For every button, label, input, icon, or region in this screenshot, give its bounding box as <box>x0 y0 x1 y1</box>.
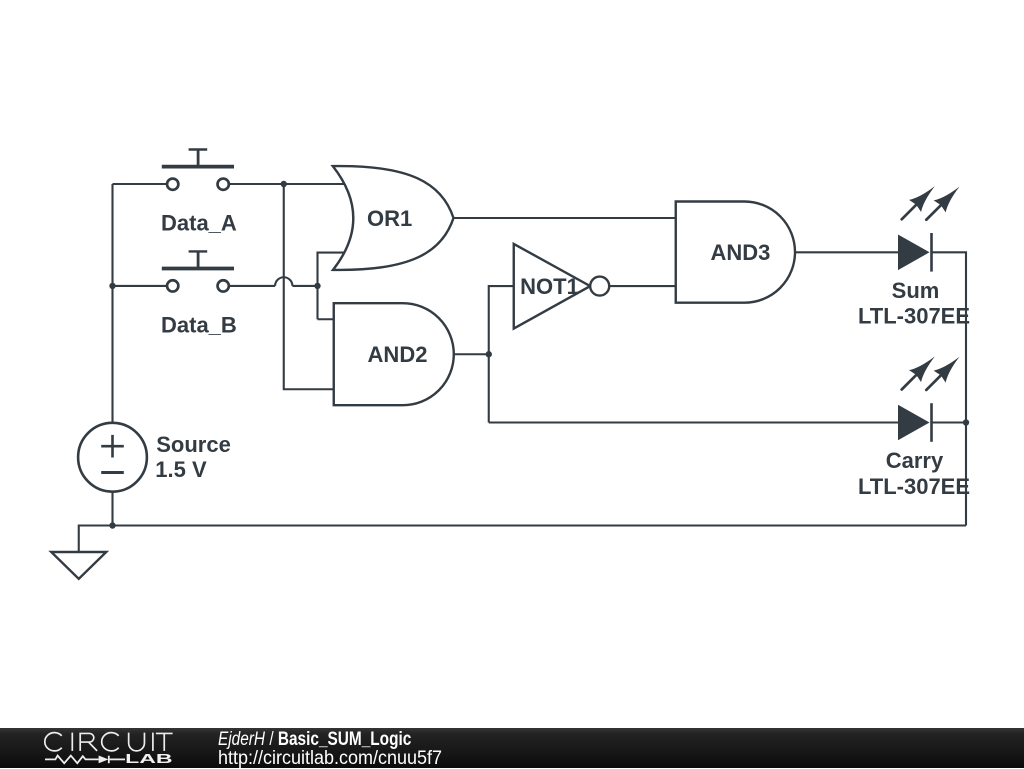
wire: NOT1 output to AND3 lower input <box>609 285 676 287</box>
and-gate AND2 <box>334 303 454 405</box>
svg-text:1.5 V: 1.5 V <box>155 457 207 482</box>
wire: bottom return rail <box>113 524 967 526</box>
node C: AND2 output junction <box>486 351 492 357</box>
wire: Data_A right segment to OR1 input <box>229 183 344 185</box>
node: left rail / Data_B junction <box>109 283 115 289</box>
wire hop over vertical wire <box>275 277 292 286</box>
wire: Sum LED cathode to right rail <box>932 252 967 525</box>
wire: Carry LED cathode to right rail <box>932 421 967 423</box>
wire: node C to Carry LED <box>489 421 898 423</box>
pushbutton Data_A <box>162 150 234 190</box>
wire: ground stub <box>79 526 113 553</box>
svg-text:NOT1: NOT1 <box>520 274 579 299</box>
footer bar <box>0 728 1024 769</box>
svg-text:Sum: Sum <box>892 278 940 303</box>
or-gate OR1 <box>333 166 454 270</box>
voltage source Source <box>78 423 147 492</box>
footer text <box>218 730 411 749</box>
CircuitLab logo <box>0 728 200 768</box>
wire: node C vertical branch <box>489 286 514 422</box>
svg-text:Data_A: Data_A <box>161 211 237 236</box>
svg-text:LTL-307EE: LTL-307EE <box>858 474 970 499</box>
wire: AND2 output to node C <box>454 353 489 355</box>
pushbutton Data_B <box>162 251 234 291</box>
svg-text:LAB: LAB <box>125 751 172 766</box>
svg-text:Data_B: Data_B <box>161 313 237 338</box>
wire: Data_A left segment <box>113 183 168 185</box>
wire: AND3 output to Sum LED <box>795 251 898 253</box>
svg-text:OR1: OR1 <box>367 206 412 231</box>
wire: Data_B left segment <box>113 285 168 287</box>
svg-text:LTL-307EE: LTL-307EE <box>858 304 970 329</box>
wire: node B down to AND2 upper input <box>318 318 334 320</box>
wire: left rail from Data_A to source top <box>111 184 113 423</box>
node: right rail / Carry junction <box>963 419 969 425</box>
wire: vertical from node A down to AND2 lower input <box>284 184 334 389</box>
wire: OR1 output to AND3 upper input <box>454 217 676 219</box>
wire: node B up to OR1 lower input <box>318 253 351 320</box>
wire: source bottom to ground node <box>111 492 113 526</box>
svg-text:AND3: AND3 <box>710 240 770 265</box>
node: ground / source junction <box>109 522 115 528</box>
and-gate AND3 <box>676 202 795 303</box>
inverter NOT1 <box>514 244 609 329</box>
node A: Data_A / OR1 junction <box>281 181 287 187</box>
wire: Data_B segment after hop to node B <box>292 285 317 287</box>
LED Carry (LTL-307EE) <box>896 350 966 441</box>
LED Sum (LTL-307EE) <box>896 180 966 271</box>
svg-text:AND2: AND2 <box>368 342 428 367</box>
ground <box>51 552 106 579</box>
wire: Data_B right segment before hop <box>229 285 275 287</box>
svg-text:Carry: Carry <box>886 448 944 473</box>
svg-text:Source: Source <box>156 432 231 457</box>
node B: Data_B / gates junction <box>314 283 320 289</box>
